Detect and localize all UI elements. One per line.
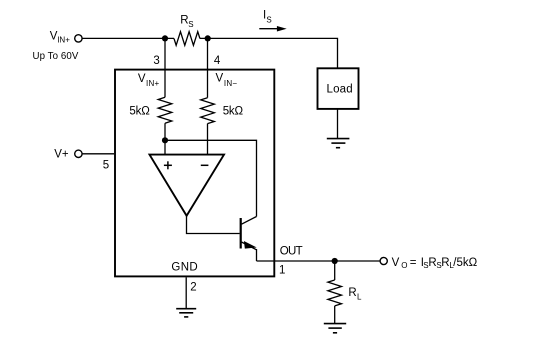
svg-text:=: =: [410, 257, 417, 269]
svg-text:OUT: OUT: [280, 246, 303, 258]
svg-text:S: S: [266, 16, 271, 25]
svg-text:S: S: [423, 261, 428, 270]
svg-text:5kΩ: 5kΩ: [223, 105, 244, 117]
svg-text:L: L: [357, 293, 362, 302]
svg-text:Load: Load: [327, 83, 353, 95]
svg-text:5kΩ: 5kΩ: [129, 105, 150, 117]
svg-text:L: L: [449, 261, 454, 270]
svg-text:R: R: [441, 257, 449, 269]
svg-text:5: 5: [103, 160, 109, 172]
svg-text:V: V: [216, 72, 224, 84]
svg-text:V: V: [138, 73, 146, 85]
svg-text:IN−: IN−: [224, 79, 238, 88]
svg-text:V: V: [392, 257, 400, 269]
svg-text:V+: V+: [54, 149, 69, 161]
svg-text:GND: GND: [171, 262, 197, 274]
svg-text:/5kΩ: /5kΩ: [453, 257, 477, 269]
svg-text:S: S: [188, 20, 193, 29]
svg-text:1: 1: [279, 265, 285, 277]
svg-text:O: O: [401, 261, 407, 270]
svg-text:IN+: IN+: [57, 36, 70, 45]
svg-text:2: 2: [190, 282, 196, 294]
svg-text:S: S: [436, 261, 441, 270]
svg-text:IN+: IN+: [146, 79, 160, 88]
svg-text:Up To 60V: Up To 60V: [33, 51, 79, 62]
svg-text:3: 3: [153, 55, 159, 67]
svg-text:R: R: [348, 287, 356, 299]
svg-text:4: 4: [214, 55, 221, 67]
